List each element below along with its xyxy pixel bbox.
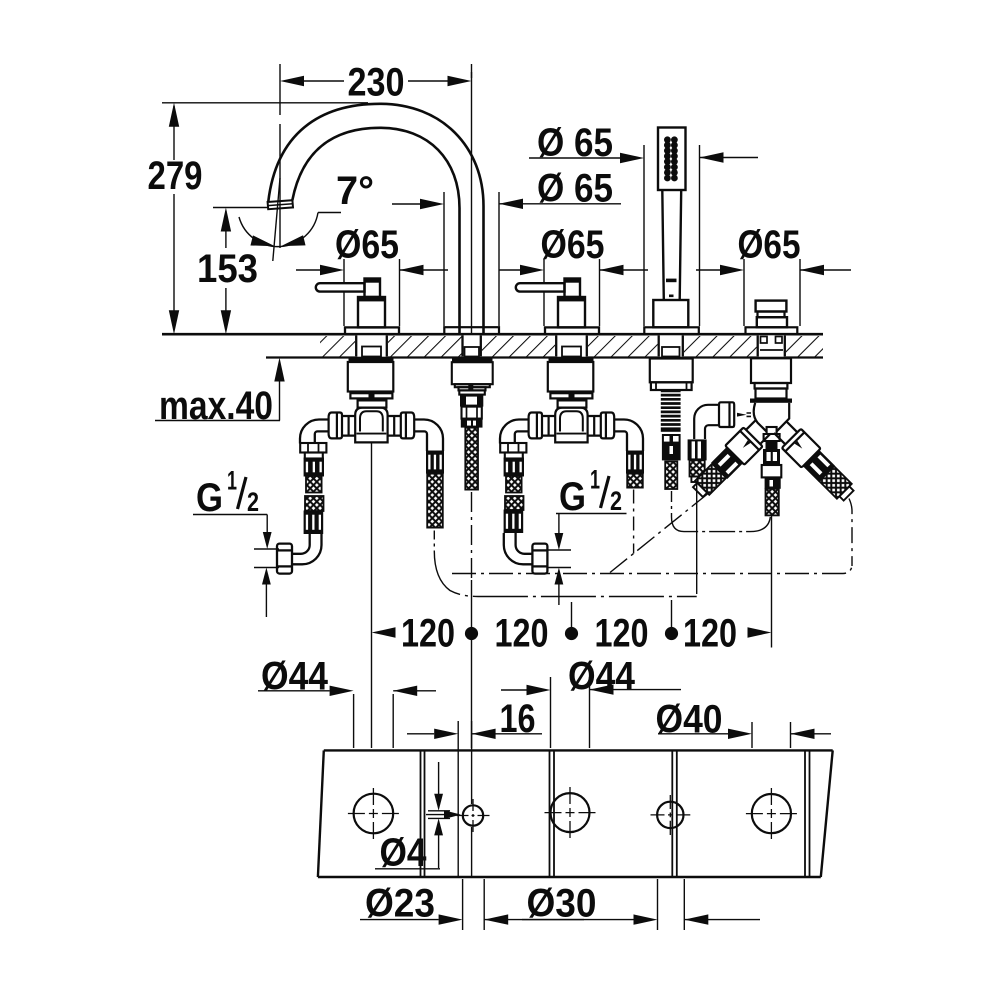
- plan hole 5 (Ø40): [746, 788, 797, 839]
- svg-text:16: 16: [500, 697, 536, 741]
- hand shower head: [658, 128, 686, 191]
- spout tail below deck: [452, 358, 493, 580]
- dimension Ø65 hand shower: [529, 121, 758, 326]
- dimension 16: [407, 697, 542, 876]
- diverter left port elbow and hose: [688, 405, 719, 594]
- svg-text:Ø40: Ø40: [656, 698, 723, 742]
- plan hole 1 (Ø44): [348, 788, 399, 839]
- handle 1 body: [345, 297, 399, 334]
- valve 2 body below deck: [548, 358, 594, 443]
- svg-text:Ø44: Ø44: [568, 655, 636, 699]
- svg-text:120: 120: [683, 612, 737, 656]
- valve 1 left union: [329, 413, 356, 439]
- G 1/2 label middle: [547, 465, 627, 606]
- svg-text:7°: 7°: [336, 169, 374, 213]
- 7 degree swivel annotation: [239, 169, 374, 261]
- svg-text:120: 120: [595, 612, 649, 656]
- svg-text:279: 279: [148, 154, 203, 198]
- plan hole 2 (Ø23 spout): [457, 799, 490, 832]
- plan tile joints: [421, 750, 810, 877]
- plan view rim band: [318, 750, 833, 877]
- diverter left 45 branch: [688, 417, 772, 501]
- valve 2 bottom elbow to G1/2 (bends right): [504, 533, 533, 564]
- diverter body below deck: [750, 358, 792, 432]
- valve 2 left elbow: [500, 420, 529, 444]
- deck gap handle1 shank: [355, 335, 388, 356]
- svg-text:230: 230: [348, 61, 405, 105]
- 120 row extension lines: [372, 443, 672, 749]
- svg-text:1: 1: [227, 466, 237, 496]
- deck gap handshower shank: [658, 335, 685, 356]
- valve 1 right elbow: [414, 420, 443, 452]
- svg-text:120: 120: [401, 612, 455, 656]
- svg-text:Ø4: Ø4: [380, 831, 428, 875]
- diverter centre outlet: [762, 427, 782, 648]
- svg-text:max.40: max.40: [159, 384, 273, 428]
- valve 2 right hose: [626, 451, 644, 554]
- hand shower shank below deck: [650, 359, 693, 490]
- G 1/2 label left: [193, 466, 279, 618]
- spout column centre line: [471, 72, 473, 333]
- valve 2 right elbow: [614, 420, 643, 452]
- svg-text:120: 120: [495, 612, 549, 656]
- deck gap spout shank: [462, 335, 483, 356]
- dimension 279: [148, 103, 369, 334]
- svg-text:Ø65: Ø65: [738, 223, 801, 267]
- svg-text:Ø30: Ø30: [527, 882, 597, 926]
- dimension Ø65 diverter: [696, 223, 851, 326]
- handle 1 lever: [316, 279, 380, 298]
- svg-text:1: 1: [590, 465, 600, 495]
- diverter right 45 branch: [770, 417, 858, 505]
- svg-text:Ø23: Ø23: [365, 882, 435, 926]
- diverter right branch hose: [849, 499, 852, 567]
- deck gap diverter shank: [757, 335, 787, 356]
- svg-text:G: G: [559, 475, 586, 519]
- svg-text:2: 2: [247, 487, 259, 517]
- valve 1 left hose fittings: [300, 443, 326, 534]
- dimension Ø40 hole5: [656, 698, 832, 749]
- svg-text:Ø65: Ø65: [335, 223, 399, 267]
- dimension 120 x4: [372, 612, 772, 656]
- svg-text:2: 2: [610, 486, 622, 516]
- svg-text:Ø 65: Ø 65: [537, 167, 613, 211]
- diverter left port union: [719, 402, 751, 427]
- hand shower handle: [662, 190, 681, 300]
- svg-text:G: G: [196, 476, 223, 520]
- dimension 230: [280, 61, 472, 249]
- deck hatched band: [162, 334, 823, 357]
- spout gooseneck inner wall: [292, 128, 459, 334]
- handle 2 body: [545, 297, 599, 334]
- valve 1 left elbow: [300, 420, 329, 444]
- valve 1 body below deck: [348, 358, 394, 443]
- plan hole 3 (Ø44): [545, 787, 596, 838]
- dimension Ø44 hole1: [258, 655, 436, 749]
- dimension Ø65 handle2: [500, 223, 649, 326]
- hand shower hose routing to diverter: [672, 491, 771, 532]
- dimension Ø30: [522, 879, 760, 930]
- spout flange: [444, 327, 499, 334]
- spout gooseneck outer wall: [268, 104, 483, 334]
- valve 2 left hose fittings: [500, 443, 526, 533]
- deck gap handle2 shank: [555, 335, 588, 356]
- plan hole 4 (Ø30): [651, 795, 691, 835]
- valve 1 right union: [388, 413, 415, 439]
- dimension Ø23: [360, 879, 584, 930]
- dimension Ø4 pilot: [375, 762, 461, 875]
- dimension Ø44 hole3: [501, 655, 681, 749]
- dimension Ø65 spout flange: [392, 167, 621, 327]
- svg-text:Ø44: Ø44: [261, 655, 329, 699]
- routing line lower horizontal: [434, 551, 696, 597]
- valve 1 right hose: [426, 451, 444, 552]
- dimension max.40: [155, 358, 285, 429]
- routing line horizontal dash-dot: [452, 564, 852, 574]
- dimension 153: [197, 208, 268, 335]
- valve 2 left union: [529, 413, 556, 439]
- handle 2 lever: [516, 279, 580, 298]
- svg-text:153: 153: [197, 247, 258, 291]
- hand shower holder cup: [644, 300, 699, 334]
- valve 2 right union: [588, 413, 615, 439]
- spout outlet aerator face: [268, 200, 293, 209]
- svg-text:Ø 65: Ø 65: [537, 121, 613, 165]
- valve 1 G1/2 union nut: [277, 544, 292, 574]
- valve 2 G1/2 union nut: [532, 544, 547, 574]
- routing diagonal dash-dot: [610, 490, 713, 573]
- diverter knob: [746, 301, 798, 335]
- dimension Ø65 handle1: [296, 223, 448, 326]
- svg-text:Ø65: Ø65: [541, 223, 605, 267]
- valve 1 bottom elbow to G1/2: [292, 534, 322, 565]
